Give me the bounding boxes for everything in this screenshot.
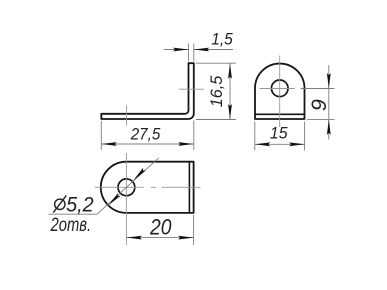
svg-text:2отв.: 2отв. <box>50 215 91 236</box>
bracket L-profile contour <box>101 63 194 119</box>
horizontal centerline top view <box>95 186 144 188</box>
dimension 16,5 extension line bottom <box>196 119 236 121</box>
dimension 16,5 extension line top <box>196 62 236 64</box>
dimension 15 extension lines <box>254 122 256 151</box>
dimension 27,5 extension line right <box>193 121 195 151</box>
leader shoulder line <box>49 213 98 215</box>
bracket front outline <box>255 64 305 119</box>
svg-text:27,5: 27,5 <box>130 125 161 143</box>
bracket top-view outline <box>101 162 194 213</box>
svg-text:20: 20 <box>149 215 172 240</box>
dimension 27,5 extension line left <box>100 121 102 150</box>
dimension 9 extension bottom <box>307 118 335 120</box>
horizontal centerline front view <box>260 88 295 90</box>
svg-text:15: 15 <box>270 125 288 143</box>
svg-text:5,2: 5,2 <box>66 194 94 217</box>
bend line top view <box>188 162 190 213</box>
leader arrow at hole edge <box>132 168 146 182</box>
svg-text:9: 9 <box>307 99 331 111</box>
vertical centerline top view (also 20-dim extension) <box>125 153 127 245</box>
hole leader line <box>97 158 159 214</box>
dimension 9 line <box>328 65 330 140</box>
svg-text:1,5: 1,5 <box>211 30 233 48</box>
dimension 27,5 line <box>101 143 194 145</box>
hole axis tick, vertical leg <box>179 88 204 90</box>
svg-text:16,5: 16,5 <box>208 75 226 107</box>
hole axis tick, horizontal leg <box>126 106 128 126</box>
dimension 20 line <box>126 237 193 239</box>
hole top view <box>118 179 135 196</box>
bend line front view <box>255 113 304 115</box>
leader arrow at outer arc <box>107 193 121 207</box>
hole front view <box>271 80 288 97</box>
dimension 1,5 extension lines <box>188 44 190 62</box>
dimension 15 line <box>255 143 305 145</box>
vertical centerline front view <box>279 56 281 128</box>
dimension 20 extension right <box>193 215 195 245</box>
dimension 1,5 line <box>164 49 189 51</box>
dimension 9 extension (hole axis, right) <box>301 88 335 90</box>
diameter symbol <box>53 195 66 212</box>
dimension 16,5 line <box>229 63 231 119</box>
